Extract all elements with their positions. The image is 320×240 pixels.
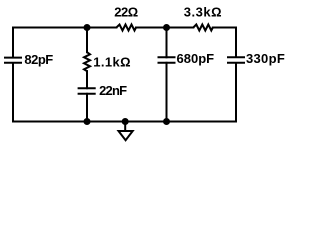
wire top middle segment: [136, 27, 193, 29]
node top branch2 junction: [163, 24, 170, 31]
node bottom ground junction: [122, 118, 129, 125]
wire right edge lower: [235, 64, 237, 122]
wire bottom: [13, 121, 236, 123]
wire left edge lower: [12, 64, 14, 122]
wire branch1 lower: [86, 94, 88, 122]
svg-text:82pF: 82pF: [24, 52, 53, 67]
svg-text:680pF: 680pF: [177, 51, 215, 66]
wire branch1 upper: [86, 28, 88, 53]
capacitor 22nF: [79, 88, 95, 94]
wire branch2 lower: [166, 63, 168, 122]
svg-text:1.1kΩ: 1.1kΩ: [93, 54, 131, 69]
wire branch1 middle: [86, 71, 88, 88]
capacitor 82pF: [5, 58, 21, 63]
svg-text:330pF: 330pF: [246, 51, 285, 66]
wire ground stub: [124, 122, 126, 131]
wire right edge upper: [235, 28, 237, 57]
wire left edge upper: [12, 28, 14, 57]
resistor 1.1kΩ: [84, 52, 90, 71]
node bottom branch1 junction: [84, 118, 91, 125]
node bottom branch2 junction: [163, 118, 170, 125]
svg-text:3.3kΩ: 3.3kΩ: [184, 5, 222, 20]
capacitor 330pF: [228, 57, 244, 63]
resistor 22Ω: [116, 25, 136, 31]
ground: [119, 131, 133, 140]
capacitor 680pF: [159, 57, 175, 63]
node top branch1 junction: [84, 24, 91, 31]
wire top right segment: [213, 27, 236, 29]
svg-text:22Ω: 22Ω: [114, 5, 137, 20]
svg-text:22nF: 22nF: [99, 83, 127, 98]
wire branch2 upper: [166, 28, 168, 58]
wire top left segment: [13, 27, 116, 29]
resistor 3.3kΩ: [193, 25, 213, 31]
